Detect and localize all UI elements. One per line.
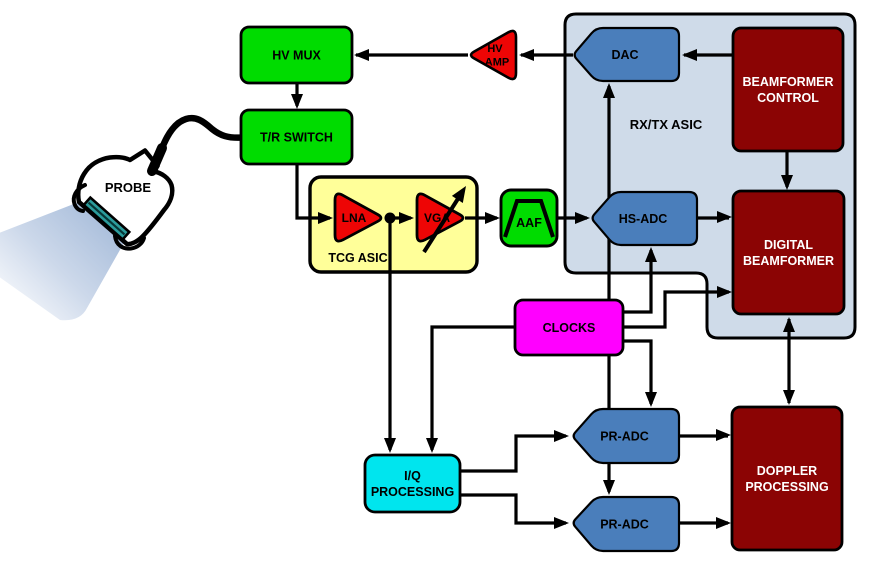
- block BEAMFORMER CONTROL: [733, 28, 843, 151]
- wire HV AMP to HV MUX: [354, 49, 468, 61]
- svg-text:PR-ADC: PR-ADC: [600, 518, 649, 532]
- wire junction to I/Q PROCESSING: [384, 218, 396, 453]
- svg-text:CONTROL: CONTROL: [757, 91, 819, 105]
- wire CLOCKS to PR-ADC 1: [623, 341, 657, 407]
- svg-text:HV MUX: HV MUX: [272, 49, 321, 63]
- amp LNA: [335, 194, 381, 241]
- wire DAC to HV AMP: [519, 49, 573, 61]
- probe cable strain relief: [152, 148, 162, 171]
- wire CLOCKS to HS-ADC: [623, 247, 657, 312]
- svg-text:LNA: LNA: [342, 211, 367, 225]
- svg-text:HS-ADC: HS-ADC: [619, 212, 668, 226]
- wire junction to VGA: [390, 212, 414, 224]
- wire I/Q PROCESSING to PR-ADC 1: [460, 430, 569, 471]
- wire CLOCKS to DAC: [603, 83, 615, 300]
- svg-text:AAF: AAF: [516, 216, 542, 230]
- wire CLOCKS to I/Q PROCESSING: [426, 327, 515, 453]
- wire HS-ADC to DIGITAL BEAMFORMER: [697, 211, 732, 223]
- probe transducer face: [84, 198, 130, 240]
- svg-text:DOPPLER: DOPPLER: [757, 464, 817, 478]
- svg-text:TCG ASIC: TCG ASIC: [328, 251, 387, 265]
- probe right ear: [115, 236, 144, 249]
- svg-text:RX/TX ASIC: RX/TX ASIC: [630, 117, 703, 132]
- svg-text:HV: HV: [487, 43, 503, 55]
- svg-text:BEAMFORMER: BEAMFORMER: [743, 254, 834, 268]
- block HV MUX: [241, 27, 352, 83]
- block DIGITAL BEAMFORMER: [733, 191, 844, 314]
- svg-text:CLOCKS: CLOCKS: [543, 321, 596, 335]
- junction node: [385, 213, 396, 224]
- wire PR-ADC 2 to DOPPLER PROCESSING: [679, 517, 731, 529]
- block AAF anti-alias filter: [501, 190, 557, 246]
- block CLOCKS: [515, 300, 623, 355]
- amp HV AMP: [471, 31, 516, 79]
- svg-text:PROBE: PROBE: [105, 180, 152, 195]
- wire T/R SWITCH to LNA: [297, 164, 333, 224]
- amp VGA: [417, 186, 466, 252]
- wire VGA to AAF: [465, 212, 500, 224]
- wire I/Q PROCESSING to PR-ADC 2: [460, 495, 569, 529]
- converter PR-ADC 1: [574, 409, 679, 463]
- svg-text:PR-ADC: PR-ADC: [600, 430, 649, 444]
- wire CLOCKS to DIGITAL BEAMFORMER: [623, 286, 732, 327]
- wire BEAMFORMER CONTROL to DAC: [682, 49, 733, 61]
- converter PR-ADC 2: [574, 497, 679, 551]
- svg-text:DAC: DAC: [611, 48, 638, 62]
- block DOPPLER PROCESSING: [732, 407, 842, 550]
- wire BEAMFORMER CONTROL to DIGITAL BEAMFORMER: [781, 151, 793, 190]
- svg-text:VGA: VGA: [424, 211, 450, 225]
- wire PR-ADC 1 to DOPPLER PROCESSING: [679, 429, 731, 441]
- TCG ASIC box: [310, 177, 477, 272]
- probe left ear: [74, 185, 85, 211]
- block I/Q PROCESSING: [365, 455, 460, 512]
- svg-text:DIGITAL: DIGITAL: [764, 238, 813, 252]
- RX/TX ASIC container: [565, 14, 855, 338]
- converter HS-ADC: [593, 192, 697, 245]
- probe body: [78, 151, 172, 245]
- wire HV MUX to T/R SWITCH: [291, 83, 303, 109]
- block T/R SWITCH: [241, 110, 352, 164]
- svg-text:BEAMFORMER: BEAMFORMER: [743, 75, 834, 89]
- probe cable: [155, 118, 243, 168]
- converter DAC: [575, 28, 679, 81]
- wire AAF to HS-ADC: [557, 212, 590, 224]
- svg-text:AMP: AMP: [485, 57, 509, 69]
- svg-text:I/Q: I/Q: [404, 469, 421, 483]
- svg-text:PROCESSING: PROCESSING: [745, 480, 828, 494]
- svg-text:PROCESSING: PROCESSING: [371, 485, 454, 499]
- wire DIGITAL BEAMFORMER to DOPPLER PROCESSING: [783, 317, 795, 405]
- svg-text:T/R SWITCH: T/R SWITCH: [260, 131, 333, 145]
- wire CLOCKS to PR-ADC 2: [603, 355, 615, 495]
